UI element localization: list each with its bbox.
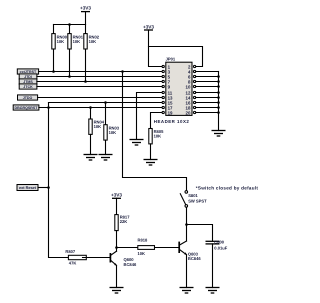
resistor R805 <box>149 113 164 160</box>
svg-text:BC846: BC846 <box>188 256 201 261</box>
power +3V3 pullups <box>80 5 91 24</box>
resistor RN03 <box>104 103 120 155</box>
wire pin15 row <box>49 102 163 104</box>
resistor R807 <box>65 249 110 265</box>
net label extJTRST <box>17 69 38 74</box>
wire row1 to pin3 <box>39 71 162 73</box>
wire right ground bus <box>196 72 219 131</box>
node RN04 row6 junction <box>89 106 92 109</box>
wire +3V3 to pins 1,2 <box>149 47 203 67</box>
ground pin11 <box>130 140 144 146</box>
power +3V3 header <box>143 25 154 47</box>
switch S801 <box>180 191 207 208</box>
ground Q800 <box>110 288 124 294</box>
connector JP01 header 10x2 <box>154 57 192 124</box>
svg-text:+3V3: +3V3 <box>111 193 122 198</box>
svg-text:22K: 22K <box>120 219 128 224</box>
transistor Q803 <box>179 241 201 288</box>
wire pin11 to ground <box>137 93 163 140</box>
resistor RN01 <box>68 25 84 77</box>
svg-text:10K: 10K <box>154 134 162 139</box>
wire row4 to pin9 <box>37 86 162 88</box>
ground R805 <box>144 160 158 166</box>
svg-text:10K: 10K <box>89 39 97 44</box>
wire row6 to pin17 <box>39 107 162 109</box>
wire extReset to riser <box>38 187 49 189</box>
resistor RN02 <box>84 25 100 82</box>
resistor RN04 <box>89 108 105 155</box>
svg-text:47K: 47K <box>69 260 77 265</box>
svg-text:DBGRQSRST: DBGRQSRST <box>15 106 39 110</box>
node pin3 riser junction <box>121 70 124 73</box>
svg-text:+3V3: +3V3 <box>80 5 91 10</box>
net label JTDO <box>18 95 38 100</box>
svg-text:10K: 10K <box>109 130 117 135</box>
wire row2 to pin5 <box>37 76 162 78</box>
svg-text:10K: 10K <box>138 251 146 256</box>
capacitor C800 <box>206 239 228 287</box>
node R817 R818 Q800 junction <box>115 246 118 249</box>
ground RN03 <box>99 155 113 161</box>
svg-text:*Switch closed by default: *Switch closed by default <box>196 186 259 191</box>
ground right bus <box>212 131 226 137</box>
wire junction to Q803 collector <box>186 225 188 242</box>
power +3V3 R817 <box>111 193 122 215</box>
node RN02 row3 junction <box>84 80 87 83</box>
net label DBGRQSRST <box>13 105 39 110</box>
node riser row6 junction <box>47 106 50 109</box>
svg-text:BC846: BC846 <box>124 262 137 267</box>
wire row5 to pin13 <box>38 97 162 99</box>
wire junction to cap <box>187 225 213 242</box>
node RN01 rail junction <box>68 23 71 26</box>
svg-text:10K: 10K <box>94 124 102 129</box>
net label ext Reset <box>17 185 38 191</box>
svg-text:JP01: JP01 <box>166 57 176 62</box>
transistor Q800 <box>110 248 137 288</box>
pin numbers left <box>168 65 173 116</box>
node RN01 row2 junction <box>68 75 71 78</box>
wire pin3 to switch <box>123 72 187 191</box>
svg-text:20: 20 <box>186 111 191 116</box>
net label JTCK <box>19 84 37 89</box>
svg-text:10: 10 <box>186 85 191 90</box>
wire reset riser <box>49 103 69 258</box>
net label JTDI <box>19 74 37 79</box>
svg-text:C800: C800 <box>214 239 225 244</box>
ground RN04 <box>84 155 98 161</box>
resistor R818 <box>117 238 180 256</box>
node bus junctions <box>217 75 220 114</box>
node RN03 pin15 junction <box>104 101 107 104</box>
ground Q803 <box>180 288 194 294</box>
ground C800 <box>206 288 220 294</box>
svg-text:SW SPST: SW SPST <box>188 199 207 204</box>
svg-text:19: 19 <box>168 111 173 116</box>
svg-text:ext Reset: ext Reset <box>19 186 37 190</box>
pin circles left <box>162 65 164 113</box>
svg-text:JTCK: JTCK <box>23 85 33 89</box>
resistor R817 <box>115 215 130 248</box>
wire switch to junction <box>186 207 188 224</box>
node RN00 row1 junction <box>52 70 55 73</box>
resistor RN00 <box>52 25 68 72</box>
wire pullup rail <box>54 24 86 26</box>
svg-text:HEADER 10X2: HEADER 10X2 <box>154 119 190 124</box>
node switch cap collector junction <box>185 223 188 226</box>
svg-text:10K: 10K <box>73 39 81 44</box>
svg-text:JTDO: JTDO <box>23 96 33 100</box>
svg-text:R807: R807 <box>65 249 76 254</box>
svg-text:S801: S801 <box>188 193 198 198</box>
wire row3 to pin7 <box>37 81 162 83</box>
svg-text:10K: 10K <box>57 39 65 44</box>
svg-text:R818: R818 <box>138 238 149 243</box>
svg-text:+3V3: +3V3 <box>143 25 154 30</box>
pin circles right <box>194 65 196 113</box>
pin numbers right <box>186 65 191 116</box>
svg-text:0.01uF: 0.01uF <box>214 245 227 250</box>
net label JTMS <box>19 79 37 84</box>
node extReset tee <box>47 186 50 189</box>
